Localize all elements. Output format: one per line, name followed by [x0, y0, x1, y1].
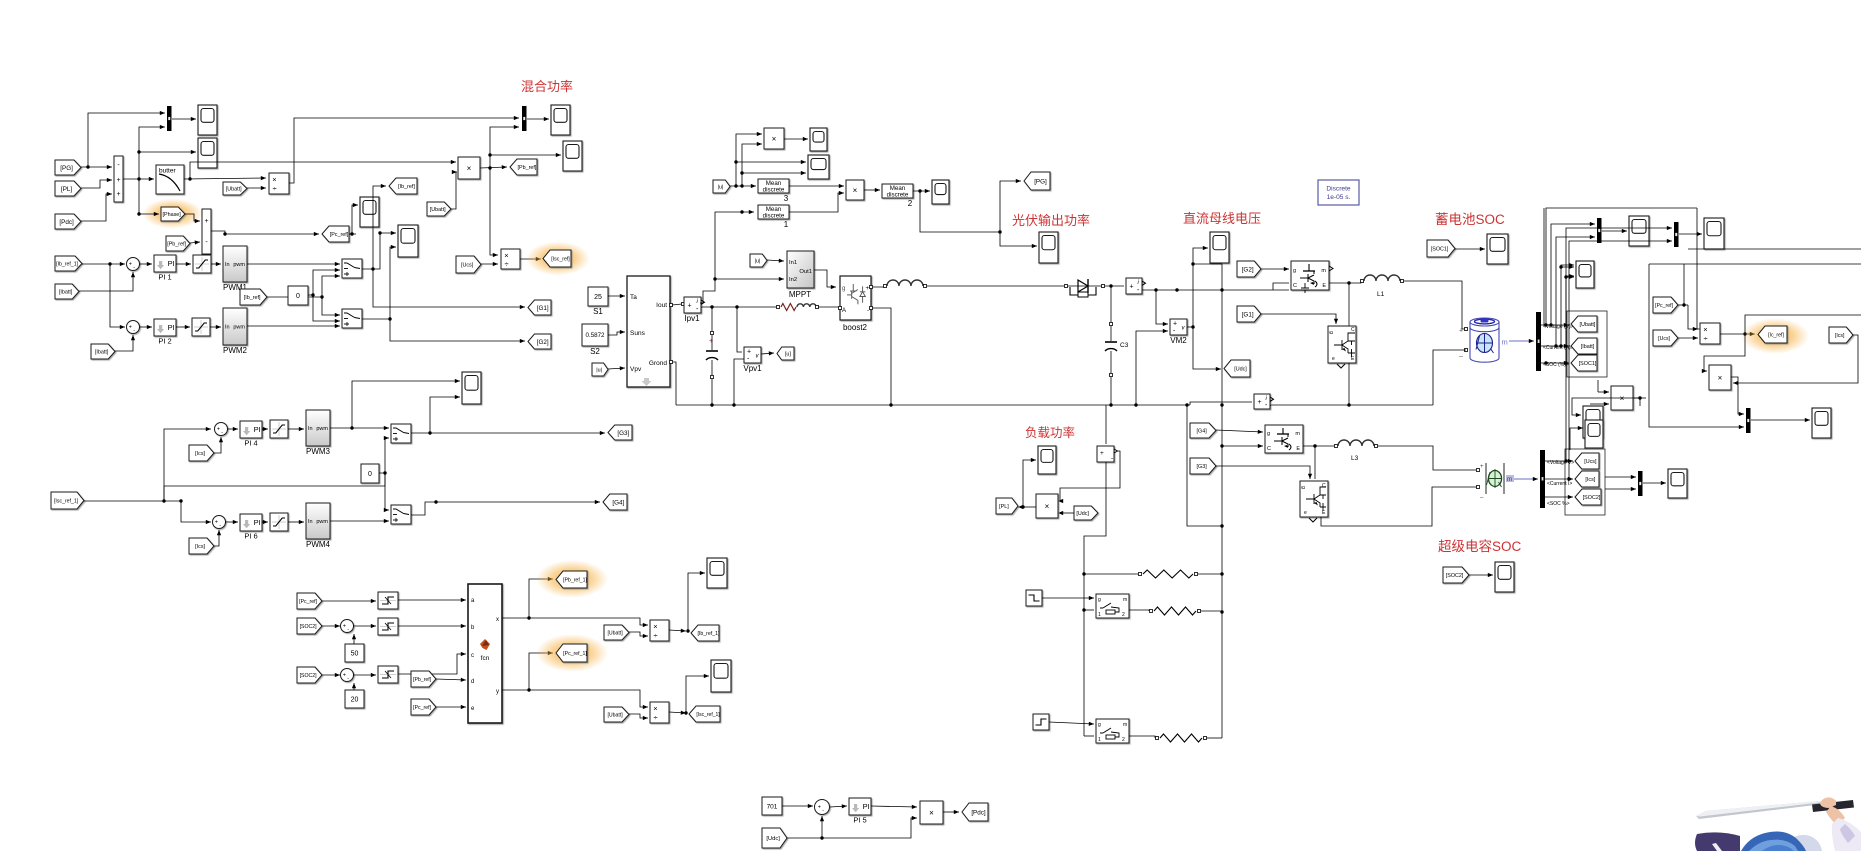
wire junction down to igbt2 — [1348, 283, 1350, 326]
svg-text:1e-05 s.: 1e-05 s. — [1327, 194, 1351, 201]
svg-text:+: + — [1480, 464, 1484, 470]
battery goto box — [1567, 311, 1607, 377]
svg-text:Vpv: Vpv — [630, 366, 642, 373]
svg-text:÷: ÷ — [653, 713, 657, 722]
sum circle fcn2 — [341, 669, 354, 682]
IGBT2 supercap leg — [1300, 481, 1328, 517]
sum circle fcn1 — [341, 620, 354, 633]
svg-text:[Ics]: [Ics] — [195, 544, 205, 550]
svg-text:g: g — [1098, 597, 1101, 603]
svg-text:0: 0 — [368, 471, 372, 478]
wire sensor i to product — [1060, 451, 1120, 498]
svg-text:S1: S1 — [593, 307, 603, 316]
scope b2 — [1704, 218, 1724, 249]
wire G1 to igbt2 g — [1261, 314, 1336, 324]
goto tag [u] pv meas — [777, 347, 794, 360]
scope sc top — [1585, 420, 1603, 448]
svg-text:C: C — [1267, 446, 1271, 452]
wire demux2 to Ics — [1545, 478, 1573, 480]
svg-text:-: - — [133, 328, 135, 334]
wire Ipv1 i meas up — [700, 212, 754, 303]
svg-text:+: + — [1130, 284, 1134, 291]
mean discrete 1 — [758, 205, 789, 219]
svg-text:In: In — [225, 262, 230, 268]
wire const0 to switches — [308, 270, 340, 295]
wire to scope3 — [352, 205, 358, 234]
wire Ibatt2 to sum2 — [115, 335, 133, 351]
svg-text:fcn: fcn — [481, 655, 490, 662]
wire Ucs to divider r — [1678, 337, 1698, 339]
svg-text:m: m — [1321, 268, 1326, 274]
svg-text:[Pb_ref_1]: [Pb_ref_1] — [563, 577, 587, 583]
scope1 — [198, 105, 217, 135]
wire Xr2 to scope — [1639, 398, 1641, 406]
wire branch up to PI4 sum — [164, 429, 211, 501]
wire Xpv to scope m1 — [784, 138, 808, 140]
sum circle PI6 — [213, 516, 226, 529]
svg-text:[Ubatt]: [Ubatt] — [226, 186, 242, 192]
saturation 2 — [192, 318, 210, 336]
svg-text:PWM3: PWM3 — [306, 447, 331, 456]
svg-text:[G1]: [G1] — [537, 305, 549, 312]
svg-text:[Ib_ref]: [Ib_ref] — [398, 184, 415, 190]
svg-text:A: A — [842, 308, 846, 314]
svg-text:负载功率: 负载功率 — [1025, 425, 1075, 440]
prod-div block2 — [501, 249, 520, 269]
svg-text:÷: ÷ — [1703, 334, 1707, 343]
svg-text:×: × — [772, 135, 777, 144]
goto tag [Pc_ref_1] highlighted — [536, 634, 608, 672]
svg-text:+: + — [688, 303, 692, 310]
from tag [Udc] load — [1074, 506, 1098, 520]
goto tag [Ibatt] batt — [1571, 338, 1597, 354]
svg-text:[PG]: [PG] — [1034, 178, 1047, 185]
battery icon — [1470, 318, 1499, 362]
capacitor C3 — [1110, 323, 1113, 326]
DC bus wire to diode — [927, 285, 1064, 287]
IGBT2 battery leg — [1328, 326, 1356, 363]
wire Icsb to sum6 — [214, 530, 219, 546]
svg-text:-: - — [347, 676, 349, 682]
svg-text:butter: butter — [159, 168, 176, 175]
svg-text:+: + — [129, 262, 132, 268]
wire fcn y out — [502, 690, 648, 707]
riser v3 — [1556, 237, 1595, 346]
wire Isc_ref_1 main — [84, 501, 211, 522]
mean discrete 3 — [758, 179, 789, 193]
svg-text:PI: PI — [863, 802, 870, 811]
svg-text:+: + — [215, 520, 218, 526]
wire Pc_ref2 to fcn e — [436, 706, 466, 708]
wire Xload out left — [1020, 506, 1036, 508]
demux battery — [1536, 312, 1541, 371]
riser v1 — [1546, 208, 1697, 325]
butter branch to product X1 — [190, 162, 456, 179]
relay 2 — [378, 618, 398, 635]
svg-text:[Ibatt]: [Ibatt] — [95, 349, 109, 355]
scope2 — [198, 138, 217, 168]
wire branch long right — [164, 473, 385, 486]
wire mux2 to scope5 — [527, 118, 549, 120]
wire Ubatt2 to divider4 — [629, 714, 648, 718]
wire X1 to mux2 in2 — [490, 127, 519, 168]
scope m2 — [808, 155, 829, 179]
wire G2 to igbt1 g — [1261, 268, 1289, 270]
svg-text:C: C — [1351, 327, 1355, 333]
svg-text:701: 701 — [767, 803, 778, 810]
PI 4 block — [240, 421, 262, 438]
goto tag [Udc] — [1224, 360, 1250, 377]
svg-text:[Udc]: [Udc] — [1234, 366, 1247, 372]
scope7 — [462, 372, 481, 404]
svg-text:[Udc]: [Udc] — [766, 836, 780, 842]
wire 701 to sum5 — [782, 805, 813, 807]
sum circle PI1 — [127, 258, 140, 271]
svg-text:[Ubatt]: [Ubatt] — [1580, 322, 1596, 328]
svg-text:d: d — [471, 679, 474, 685]
wire boost2 minus down to rail — [873, 308, 891, 405]
wire Ucs to divider — [481, 263, 498, 265]
svg-text:y: y — [496, 689, 499, 695]
wire sat6 to PWM4 — [288, 521, 304, 523]
wire Add2 out — [211, 231, 319, 234]
wire PG branch to mux1 — [88, 113, 165, 167]
from tag [SOC1] — [1427, 240, 1455, 257]
scope r2 — [1812, 408, 1831, 438]
svg-text:In2: In2 — [789, 277, 797, 283]
from tag [SOC2] f2 — [297, 667, 322, 683]
wire Ics to sum4 — [214, 437, 221, 453]
svg-text:Iout: Iout — [656, 302, 667, 309]
wire sum4 to PI4 — [227, 428, 238, 430]
svg-text:_: _ — [1479, 492, 1484, 498]
mean discrete 2 — [882, 184, 913, 198]
scope8 — [707, 558, 727, 588]
wire relay1 to fcn a — [398, 599, 466, 601]
main vertical load bus — [1221, 264, 1223, 738]
wire mux1 to scope1 — [172, 118, 196, 120]
from tag [PG] — [55, 160, 81, 175]
wire divider to Ic_ref — [1720, 333, 1755, 335]
svg-text:PI: PI — [168, 323, 175, 332]
svg-text:+: + — [129, 325, 132, 331]
constant S2 0.5872 — [582, 324, 608, 346]
svg-text:[Isc_ref]: [Isc_ref] — [551, 256, 570, 262]
product X r2 — [1611, 386, 1633, 410]
svg-text:[SOC2]: [SOC2] — [1446, 573, 1464, 579]
load resistor row3 — [1156, 737, 1159, 740]
svg-text:×: × — [467, 164, 472, 173]
scope m3 — [932, 180, 949, 204]
wire battery m to demux — [1509, 340, 1534, 342]
svg-text:+: + — [1100, 450, 1104, 457]
supercap goto box — [1565, 449, 1605, 515]
svg-text:g: g — [842, 286, 845, 292]
wire 50 to sum7 — [353, 634, 355, 644]
svg-text:2: 2 — [908, 199, 913, 208]
wire junction to igbt4 top — [1314, 446, 1316, 479]
subsystem PWM1 — [223, 246, 247, 282]
wire PI5 to X5 — [871, 806, 917, 807]
svg-text:3: 3 — [784, 194, 789, 203]
from tag [G1] — [1237, 306, 1261, 322]
svg-text:[Ubatt]: [Ubatt] — [430, 207, 446, 213]
inductor L1 — [1361, 280, 1364, 283]
wire SOC1 to scope — [1455, 248, 1485, 250]
wire relay3 to fcn c — [398, 654, 466, 674]
wire x to Pb_ref_1 — [529, 579, 553, 618]
svg-text:[PL]: [PL] — [61, 186, 72, 193]
wire mux to scope r2 — [1751, 419, 1810, 421]
svg-text:[Pb_ref]: [Pb_ref] — [413, 677, 432, 683]
wire PWM3 to switch3 — [330, 427, 389, 429]
wire igbt2 E down to rail — [1348, 363, 1350, 405]
svg-text:×: × — [1045, 502, 1050, 511]
wire PI4 to sat4 — [262, 428, 268, 430]
svg-text:[Ucs]: [Ucs] — [461, 262, 474, 268]
wire SOC2 to sum7 — [322, 625, 340, 627]
wire demux to SOC1 — [1541, 362, 1569, 364]
svg-text:×: × — [653, 622, 657, 631]
svg-text:[SOC2]: [SOC2] — [300, 624, 318, 630]
svg-text:m: m — [1295, 431, 1300, 437]
wire PI1 to sat1 — [176, 263, 191, 265]
switch 3 — [391, 424, 411, 443]
butter filter block — [156, 165, 184, 194]
wire sat4 to PWM3 — [288, 428, 304, 430]
wire MPPT Out1 to boost g — [814, 270, 836, 287]
svg-text:[SOC1]: [SOC1] — [1431, 246, 1449, 252]
svg-text:x: x — [496, 617, 499, 623]
svg-text:[SOC1]: [SOC1] — [1579, 361, 1597, 367]
wire sum2 to PI2 — [139, 326, 152, 328]
svg-text:C: C — [1322, 483, 1326, 489]
svg-text:[PG]: [PG] — [60, 165, 73, 172]
wire igbt3 E to L3 — [1303, 445, 1334, 447]
ground rail wire — [676, 404, 1190, 406]
svg-text:discrete: discrete — [763, 186, 785, 193]
svg-text:pwm: pwm — [233, 325, 245, 331]
IGBT half-bridge supercap — [1265, 425, 1303, 453]
svg-text:[Ibatt]: [Ibatt] — [59, 289, 73, 295]
svg-text:[Pc_ref_1]: [Pc_ref_1] — [563, 651, 587, 657]
svg-text:m: m — [1123, 722, 1127, 728]
inductor L3 — [1335, 445, 1338, 448]
svg-text:In: In — [225, 325, 230, 331]
constant 50 — [345, 644, 364, 662]
demux supercap — [1540, 450, 1545, 508]
svg-text:[Ucs]: [Ucs] — [1658, 336, 1670, 342]
svg-text:×: × — [1620, 394, 1625, 403]
wire sum6 to PI6 — [225, 521, 238, 523]
wire G3 to igbt4 — [1216, 466, 1310, 479]
from tag [G2] — [1237, 261, 1261, 277]
relay 1 — [378, 592, 398, 609]
mux sc — [1638, 471, 1643, 496]
svg-text:1: 1 — [1098, 612, 1101, 618]
svg-text:[Ic_ref]: [Ic_ref] — [1768, 332, 1784, 338]
goto tag [Ib_ref] upper — [389, 178, 417, 194]
load resistor row1 — [1139, 573, 1142, 576]
wire VM2 riser branch right — [1193, 263, 1222, 265]
svg-text:PWM4: PWM4 — [306, 540, 331, 549]
wire Ubatt to prod-div in2 — [247, 187, 266, 189]
scope b1 — [1629, 216, 1649, 246]
from tag [Ibatt] 2 — [91, 344, 115, 359]
breaker 2 — [1096, 719, 1129, 743]
goto tag [Ubatt] batt — [1571, 316, 1597, 332]
svg-text:0.5872: 0.5872 — [586, 332, 605, 339]
svg-text:[G4]: [G4] — [612, 499, 624, 506]
wire demux2 to Ucs — [1545, 460, 1573, 462]
svg-text:PI 1: PI 1 — [158, 273, 171, 282]
wire Add1 branch to mux1 in2 — [139, 127, 165, 179]
svg-text:+: + — [709, 338, 713, 345]
load resistor row2 — [1150, 610, 1153, 613]
wire Vpv1 branch — [737, 307, 742, 352]
from tag [Pdc] — [55, 214, 81, 229]
svg-text:PI: PI — [254, 425, 261, 434]
svg-text:+: + — [1459, 328, 1463, 335]
from tag [G3] lb — [1190, 458, 1216, 474]
wire X5 to Pdc goto — [943, 811, 959, 813]
svg-text:<SOC %>: <SOC %> — [1547, 501, 1570, 507]
wire mux to scope b1 — [1602, 230, 1627, 232]
wire bus to igbt3 C — [1222, 445, 1263, 447]
wire u junctions — [730, 185, 756, 187]
wire Ics loop — [1733, 335, 1858, 383]
PI 2 block — [154, 319, 176, 336]
svg-text:m: m — [1123, 597, 1127, 603]
riser v2 — [1551, 224, 1595, 325]
scope r1 — [1583, 406, 1603, 438]
mux battery VI — [1597, 218, 1602, 243]
svg-text:Discrete: Discrete — [1326, 186, 1351, 193]
goto tag [Pb_ref_1] highlighted — [536, 560, 608, 598]
voltage sensor Vpv1 — [744, 347, 761, 363]
mux2 — [522, 106, 527, 131]
svg-text:discrete: discrete — [763, 212, 785, 219]
svg-text:2: 2 — [1122, 612, 1125, 618]
wire PWM3 to scope7 — [352, 381, 460, 428]
wire Xmid to mean2 — [864, 189, 880, 191]
subsystem MPPT — [787, 251, 814, 288]
sum block Add1 — [114, 156, 123, 202]
svg-text:[Pb_ref]: [Pb_ref] — [167, 241, 186, 247]
wire demux to Ubatt — [1541, 324, 1569, 326]
svg-text:E: E — [1296, 446, 1300, 452]
svg-text:×: × — [1703, 325, 1707, 334]
switch 1 — [342, 259, 362, 278]
PI 6 block — [240, 514, 262, 531]
goto tag [PG] — [1024, 172, 1050, 190]
wire PI6 to sat6 — [262, 521, 268, 523]
svg-text:PI: PI — [254, 518, 261, 527]
product X1 — [458, 157, 480, 179]
svg-text:C3: C3 — [1120, 342, 1129, 349]
wire mux2 to scope b2 — [1679, 233, 1702, 235]
svg-text:Ta: Ta — [630, 294, 637, 301]
svg-text:Out1: Out1 — [799, 269, 812, 275]
svg-text:PI 6: PI 6 — [244, 532, 257, 541]
diode D1 — [1065, 285, 1068, 288]
svg-text:[Udc]: [Udc] — [1076, 511, 1089, 517]
wire switch1 out — [362, 186, 386, 269]
goto tag [Ics] sc — [1575, 471, 1599, 487]
scope4 — [563, 141, 582, 171]
wire SOC2 to scope — [1469, 574, 1493, 576]
PI 1 block — [154, 255, 176, 272]
svg-text:PI: PI — [168, 259, 175, 268]
svg-text:g: g — [1267, 431, 1270, 437]
goto tag [Ic_ref] highlighted — [1741, 318, 1809, 354]
from tag [Ubatt] — [223, 182, 247, 195]
wire L1 to battery plus — [1404, 281, 1466, 329]
step source 2 — [1033, 714, 1049, 730]
wire PI2 to sat2 — [176, 326, 190, 328]
svg-text:[Pc_ref]: [Pc_ref] — [330, 232, 349, 238]
wire mean2 down to PG — [920, 191, 1000, 232]
wire 20 to sum8 — [353, 683, 355, 690]
wire Ubatt to X1 in2 — [451, 172, 457, 209]
goto tag [Ucs] sc — [1575, 453, 1599, 469]
svg-text:PI 5: PI 5 — [853, 816, 866, 825]
svg-text:-: - — [133, 265, 135, 271]
wire Pb_ref to Add2 — [190, 242, 200, 243]
from tag [Ics] a — [189, 445, 214, 461]
from tag [Ib_ref] mid — [240, 289, 267, 305]
wire PWM2 to switch2 — [247, 325, 340, 327]
DC bus inductor — [887, 280, 923, 286]
svg-text:[Pb_ref]: [Pb_ref] — [518, 165, 537, 171]
from tag [Udc] b — [762, 828, 787, 848]
wire switch1 to scope6 — [373, 233, 396, 269]
scope b3 inputs — [1561, 266, 1574, 268]
sum circle PI5 — [815, 800, 830, 815]
svg-text:50: 50 — [351, 651, 359, 658]
PV bus series resistor — [777, 306, 780, 309]
load box wires — [1187, 405, 1222, 526]
svg-text:+: + — [116, 191, 120, 198]
svg-text:[G4]: [G4] — [1197, 428, 1208, 434]
wire bus to igbt1 C — [1273, 283, 1289, 290]
svg-text:[G2]: [G2] — [1242, 266, 1254, 273]
wire sum1 to PI1 — [139, 263, 152, 265]
from tag [SOC2] — [1443, 567, 1469, 583]
wire VM2 up to scope dc — [1193, 248, 1208, 327]
wire mean2 out — [913, 190, 930, 192]
goto tag [Isc_ref_1] — [689, 706, 720, 722]
wire Add1 branch to scope2 — [139, 151, 196, 153]
from tag [Ics] r — [1829, 327, 1853, 343]
constant 20 — [345, 690, 364, 708]
breaker 1 — [1096, 594, 1129, 618]
wire fcn x out — [502, 618, 648, 625]
svg-text:<Current I>: <Current I> — [1547, 481, 1572, 487]
svg-text:×: × — [929, 809, 934, 818]
svg-text:|u|: |u| — [596, 367, 602, 373]
wire junction down to C3 — [1110, 286, 1112, 322]
mux cluster2 — [1674, 222, 1679, 247]
discrete solver label — [1318, 180, 1359, 205]
svg-text:In: In — [308, 519, 313, 525]
goto tag [G2] — [528, 334, 551, 349]
sum circle PI2 — [127, 321, 140, 334]
scope3 — [360, 197, 379, 227]
current sensor Ipv1 — [684, 297, 701, 313]
product X r1 — [1709, 365, 1731, 390]
saturation 4 — [270, 420, 288, 438]
